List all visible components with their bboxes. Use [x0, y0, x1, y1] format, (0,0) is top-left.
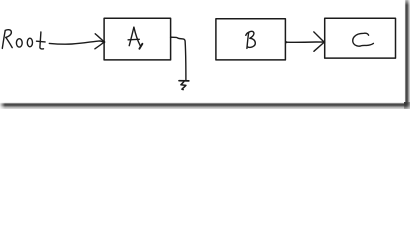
shadow bottom-left fade-in [0, 102, 5, 109]
label C inside box C [353, 33, 374, 46]
paper sheet with drop shadow [0, 0, 404, 102]
label Root : letter o [16, 39, 22, 47]
wire: arrow from Root to box A [49, 34, 105, 49]
box A (node rectangle) [104, 18, 171, 60]
wire: from box A right edge down to null [170, 36, 186, 79]
shadow right band [404, 0, 410, 102]
label Root : letter o [27, 38, 32, 47]
label Root : letter R [2, 30, 12, 49]
shadow corner wrap [404, 102, 410, 109]
label Root : letter t [37, 32, 46, 49]
box B (node rectangle) [216, 19, 286, 60]
null squiggle [181, 82, 186, 90]
box C (node rectangle) [325, 18, 396, 58]
wire: arrow from box B to box C [285, 32, 325, 51]
shadow bottom band [0, 102, 404, 109]
shadow top-right fade-in [404, 0, 410, 5]
label A inside box A [128, 27, 142, 49]
label B inside box B [246, 31, 256, 48]
null terminator bar [179, 80, 189, 82]
